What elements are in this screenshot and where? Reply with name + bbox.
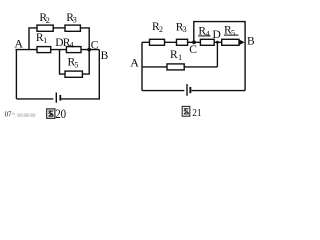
caption 图21 : hand-drawn CJK 图 glyph xyxy=(182,106,190,116)
wire: riser from A node up to top branch xyxy=(29,28,37,50)
wire: outer bottom to battery xyxy=(142,90,184,92)
underline under R4 label xyxy=(198,35,210,37)
svg-text:A: A xyxy=(130,56,139,70)
wire: D drop down to R5 loop xyxy=(60,50,66,75)
svg-text:20: 20 xyxy=(55,106,66,121)
battery cell (right figure): short thick plate xyxy=(189,87,191,93)
caption 图20 : hand-drawn CJK 图 glyph xyxy=(47,109,55,118)
svg-text:2: 2 xyxy=(46,16,50,25)
svg-text:2: 2 xyxy=(159,25,163,34)
svg-text:5: 5 xyxy=(74,61,78,70)
wire: outer bottom from battery to right edge xyxy=(192,90,246,92)
watermark smudge xyxy=(5,112,36,119)
svg-text:4: 4 xyxy=(70,41,74,50)
svg-text:R: R xyxy=(170,49,178,61)
svg-text:B: B xyxy=(101,50,109,62)
resistor R5 xyxy=(65,71,82,77)
wire: main middle wire from A through D to C node xyxy=(16,49,100,51)
resistor R5 (right) xyxy=(222,39,239,45)
resistor R3 (right) xyxy=(177,39,188,45)
resistor R2 (right) xyxy=(150,39,165,45)
resistor R3 xyxy=(65,25,80,31)
underline under R5 label xyxy=(224,34,238,36)
node D junction dot (right) xyxy=(216,41,219,44)
svg-text:1: 1 xyxy=(178,53,182,62)
svg-text:1: 1 xyxy=(43,36,47,45)
resistor R4 (right) xyxy=(200,39,214,45)
wire: outer left edge xyxy=(141,42,143,90)
svg-text:4: 4 xyxy=(206,29,210,38)
svg-text:A: A xyxy=(14,37,23,51)
arrow head at B xyxy=(239,40,244,45)
wire: R5 right side up to node C xyxy=(82,50,89,75)
node C junction dot (right) xyxy=(192,40,196,44)
svg-text:21: 21 xyxy=(192,107,201,119)
resistor R2 xyxy=(37,25,53,31)
wire: top main wire segments xyxy=(142,41,241,43)
svg-text:3: 3 xyxy=(73,16,77,25)
svg-text:C: C xyxy=(91,40,99,52)
resistor R1 (right) xyxy=(167,64,184,70)
wire: between R2 and R3 xyxy=(53,27,65,29)
wire: outer left edge down from A xyxy=(15,50,17,99)
svg-text:5: 5 xyxy=(231,29,235,38)
wire: R1 branch horizontal xyxy=(142,66,217,68)
svg-text:3: 3 xyxy=(183,25,187,34)
wire: bypass loop from node C up, over R4 R5, and right edge down to bottom xyxy=(194,22,245,91)
wire: outer bottom right segment from battery and right edge up to B corner xyxy=(61,50,99,99)
battery cell (left figure): short thick plate xyxy=(59,95,61,101)
battery cell (left figure): long plate xyxy=(55,93,57,103)
svg-text:07: 07 xyxy=(5,112,12,119)
resistor R4 xyxy=(66,47,81,53)
wire: from R3 right to descent into node C xyxy=(80,28,89,50)
svg-text:B: B xyxy=(247,35,255,47)
wire: R1 branch riser up to node D xyxy=(216,42,218,67)
node C junction dot xyxy=(87,48,91,52)
battery cell (right figure): long plate xyxy=(186,84,188,96)
wire: outer bottom left segment to battery xyxy=(16,98,53,100)
resistor R1 xyxy=(37,47,51,53)
svg-text:D: D xyxy=(213,29,221,41)
svg-text:C: C xyxy=(189,44,197,56)
